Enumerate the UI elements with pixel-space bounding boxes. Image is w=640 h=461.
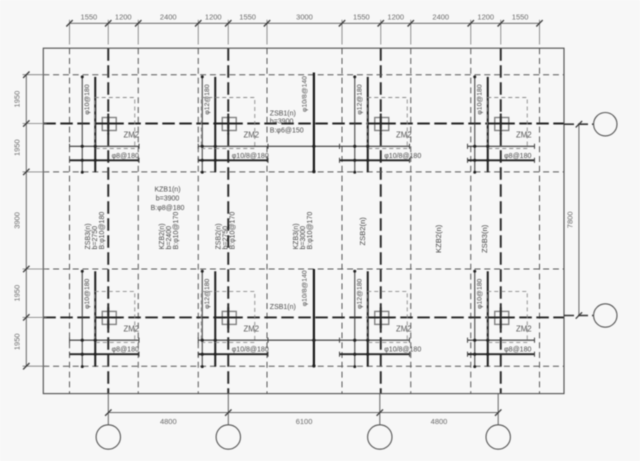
svg-text:B:φ10@180: B:φ10@180 bbox=[99, 212, 106, 250]
svg-text:φ10/8@180: φ10/8@180 bbox=[232, 347, 269, 354]
svg-text:φ10@180: φ10@180 bbox=[84, 278, 91, 308]
svg-text:1550: 1550 bbox=[512, 12, 529, 21]
svg-text:1200: 1200 bbox=[205, 12, 222, 21]
svg-text:ZM2: ZM2 bbox=[516, 325, 532, 334]
svg-text:4800: 4800 bbox=[160, 417, 177, 426]
svg-text:φ8@180: φ8@180 bbox=[504, 347, 531, 354]
svg-text:B:φ10@170: B:φ10@170 bbox=[173, 212, 180, 250]
svg-text:b=3000: b=3000 bbox=[300, 226, 307, 250]
svg-text:φ10@180: φ10@180 bbox=[477, 278, 484, 308]
svg-text:ZM2: ZM2 bbox=[396, 325, 412, 334]
svg-text:7800: 7800 bbox=[566, 212, 575, 229]
svg-text:b=3900: b=3900 bbox=[156, 196, 180, 203]
svg-text:3900: 3900 bbox=[13, 212, 22, 229]
svg-text:ZSB2(n): ZSB2(n) bbox=[215, 223, 222, 249]
svg-text:ZM2: ZM2 bbox=[396, 131, 412, 140]
svg-text:φ10@180: φ10@180 bbox=[84, 84, 91, 114]
svg-text:1950: 1950 bbox=[13, 285, 22, 302]
svg-text:φ10@180: φ10@180 bbox=[477, 84, 484, 114]
svg-text:B:φ8@180: B:φ8@180 bbox=[151, 205, 185, 212]
svg-text:1200: 1200 bbox=[387, 12, 404, 21]
svg-text:φ10/8@140: φ10/8@140 bbox=[302, 76, 309, 112]
svg-text:1550: 1550 bbox=[81, 12, 98, 21]
svg-text:φ10/8@140: φ10/8@140 bbox=[302, 270, 309, 306]
svg-text:KZB3(n): KZB3(n) bbox=[293, 223, 300, 249]
svg-text:φ12@180: φ12@180 bbox=[357, 278, 364, 308]
svg-text:ZM2: ZM2 bbox=[243, 131, 259, 140]
svg-text:ZSB3(n): ZSB3(n) bbox=[85, 223, 92, 249]
svg-text:1200: 1200 bbox=[115, 12, 132, 21]
svg-text:ZSB3(n): ZSB3(n) bbox=[480, 224, 489, 253]
svg-text:φ8@180: φ8@180 bbox=[112, 153, 139, 160]
svg-text:b=2750: b=2750 bbox=[222, 226, 229, 250]
svg-text:1950: 1950 bbox=[13, 91, 22, 108]
svg-text:φ8@180: φ8@180 bbox=[504, 153, 531, 160]
svg-text:B:φ10@170: B:φ10@170 bbox=[229, 212, 236, 250]
svg-text:KZB2(n): KZB2(n) bbox=[159, 223, 166, 249]
svg-text:ZM2: ZM2 bbox=[243, 325, 259, 334]
svg-text:b=2400: b=2400 bbox=[166, 226, 173, 250]
svg-text:φ10/8@180: φ10/8@180 bbox=[384, 153, 421, 160]
svg-text:1200: 1200 bbox=[477, 12, 494, 21]
svg-text:B:φ6@150: B:φ6@150 bbox=[270, 127, 304, 134]
svg-text:b=3900: b=3900 bbox=[270, 119, 294, 126]
svg-text:4800: 4800 bbox=[431, 417, 448, 426]
svg-text:ZM2: ZM2 bbox=[123, 131, 139, 140]
svg-text:ZSB1(n): ZSB1(n) bbox=[270, 304, 296, 311]
svg-text:2400: 2400 bbox=[160, 12, 177, 21]
svg-text:b=2750: b=2750 bbox=[92, 226, 99, 250]
svg-text:B:φ10@170: B:φ10@170 bbox=[307, 212, 314, 250]
svg-text:1950: 1950 bbox=[13, 139, 22, 156]
svg-text:KZB2(n): KZB2(n) bbox=[434, 224, 443, 253]
svg-text:6100: 6100 bbox=[296, 417, 313, 426]
svg-text:2400: 2400 bbox=[432, 12, 449, 21]
svg-text:1550: 1550 bbox=[353, 12, 370, 21]
svg-text:1950: 1950 bbox=[13, 333, 22, 350]
svg-text:3000: 3000 bbox=[296, 12, 313, 21]
svg-text:φ12@180: φ12@180 bbox=[357, 84, 364, 114]
svg-text:KZB1(n): KZB1(n) bbox=[154, 187, 180, 194]
svg-text:φ12@180: φ12@180 bbox=[204, 84, 211, 114]
svg-text:φ12@180: φ12@180 bbox=[204, 278, 211, 308]
svg-text:ZM2: ZM2 bbox=[123, 325, 139, 334]
svg-text:ZSB1(n): ZSB1(n) bbox=[270, 110, 296, 117]
svg-text:φ10/8@180: φ10/8@180 bbox=[384, 347, 421, 354]
svg-text:ZSB2(n): ZSB2(n) bbox=[358, 217, 367, 246]
svg-text:φ10/8@180: φ10/8@180 bbox=[232, 153, 269, 160]
svg-text:ZM2: ZM2 bbox=[516, 131, 532, 140]
svg-text:1550: 1550 bbox=[239, 12, 256, 21]
svg-text:φ8@180: φ8@180 bbox=[112, 347, 139, 354]
